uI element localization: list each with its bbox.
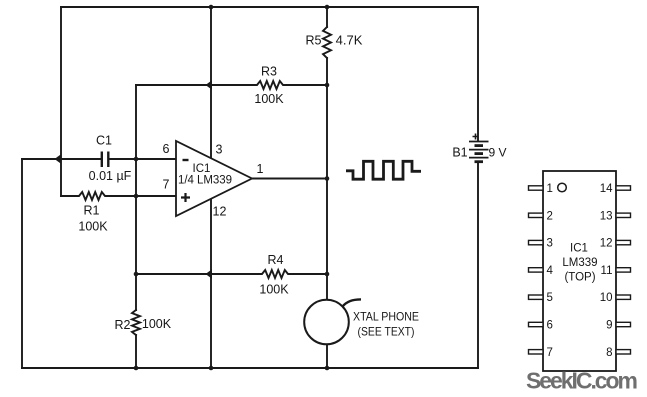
- op-amp U1 triangle: [176, 141, 252, 216]
- svg-text:2: 2: [547, 210, 553, 222]
- resistor R2: [132, 310, 140, 335]
- wire right vertical below R5: [326, 58, 328, 368]
- IC package right pins: [616, 186, 631, 354]
- svg-text:6: 6: [547, 320, 553, 332]
- svg-text:4: 4: [547, 265, 554, 277]
- capacitor C1 right plate: [107, 152, 109, 168]
- svg-text:LM339: LM339: [562, 257, 597, 269]
- wire battery vertical top: [477, 7, 479, 141]
- svg-text:R2: R2: [115, 318, 131, 332]
- wire left vertical from top rail down to R1: [60, 7, 62, 196]
- op-amp plus sign: [181, 193, 190, 202]
- svg-text:6: 6: [163, 142, 170, 156]
- IC package right pin numbers 14-8: [600, 183, 613, 359]
- node: arrow join C1 wire to left vertical: [55, 154, 62, 164]
- wire C1 branch left segment: [22, 158, 101, 160]
- svg-text:8: 8: [606, 347, 612, 359]
- svg-text:(SEE TEXT): (SEE TEXT): [358, 325, 415, 339]
- wire right feedback vertical with R5: [326, 7, 328, 27]
- node: junction bottom rail / power rail: [209, 366, 214, 371]
- IC package IC1 LM339 body: [543, 171, 616, 371]
- svg-text:10: 10: [600, 292, 613, 304]
- node: junction output / right vertical: [325, 176, 330, 181]
- svg-text:IC1: IC1: [193, 163, 211, 175]
- svg-text:1: 1: [257, 162, 264, 176]
- IC package left pins: [529, 186, 544, 354]
- wire inverting input pin 6: [136, 158, 176, 160]
- resistor R1: [61, 192, 136, 200]
- resistor R3: [136, 81, 327, 89]
- node: junction top rail / R5 branch: [325, 5, 330, 10]
- node: junction R4 left: [134, 272, 139, 277]
- svg-text:13: 13: [600, 210, 613, 222]
- svg-text:IC1: IC1: [570, 243, 588, 255]
- svg-text:11: 11: [601, 265, 613, 277]
- resistor R5: [323, 27, 331, 58]
- svg-text:1/4 LM339: 1/4 LM339: [178, 175, 232, 187]
- svg-text:9: 9: [606, 320, 612, 332]
- node: junction bottom rail / R2: [134, 366, 139, 371]
- node: junction R4 right: [325, 272, 330, 277]
- svg-text:7: 7: [547, 347, 553, 359]
- wire non-inverting input pin 7: [136, 195, 176, 197]
- wire mid-left vertical (R3 corner down through R2 to bottom): [135, 85, 137, 310]
- crystal earphone leader curve: [343, 299, 362, 306]
- battery plus sign: [473, 134, 479, 140]
- IC package pin 1 indicator circle: [558, 183, 567, 192]
- svg-text:7: 7: [163, 178, 170, 192]
- node: junction R3 right: [325, 83, 330, 88]
- svg-text:R4: R4: [268, 253, 284, 267]
- wire C1 branch right segment: [110, 158, 137, 160]
- resistor R4: [136, 270, 327, 278]
- wire op-amp output pin 1: [252, 178, 327, 180]
- wire power rail vertical (pins 3/12): [210, 7, 212, 368]
- svg-text:C1: C1: [96, 134, 112, 148]
- svg-text:3: 3: [547, 238, 553, 250]
- svg-text:R3: R3: [261, 65, 277, 79]
- svg-text:0.01 µF: 0.01 µF: [89, 169, 132, 183]
- svg-text:3: 3: [216, 143, 223, 157]
- battery B1 plates: [469, 142, 489, 162]
- svg-text:R1: R1: [84, 204, 100, 218]
- wire top rail: [61, 6, 478, 8]
- wire below R2: [135, 335, 137, 368]
- svg-text:14: 14: [600, 183, 613, 195]
- svg-text:R5: R5: [306, 34, 322, 48]
- node: junction bottom rail / earphone: [325, 366, 330, 371]
- svg-text:12: 12: [213, 205, 227, 219]
- svg-text:4.7K: 4.7K: [336, 33, 363, 48]
- svg-text:100K: 100K: [259, 283, 289, 297]
- svg-text:B1: B1: [452, 146, 467, 160]
- wire far-left vertical: [21, 159, 23, 368]
- capacitor C1 left plate: [101, 152, 103, 168]
- node: junction R1 right / pin7: [134, 194, 139, 199]
- wire bottom rail: [22, 367, 478, 369]
- op-amp minus sign: [183, 159, 189, 161]
- crystal earphone circle: [304, 300, 349, 345]
- svg-text:1: 1: [547, 183, 553, 195]
- node: junction top rail / power rail: [209, 5, 214, 10]
- svg-text:5: 5: [547, 292, 553, 304]
- node: arrow join R4 wire to power rail: [206, 269, 213, 279]
- svg-text:100K: 100K: [78, 220, 108, 234]
- svg-text:12: 12: [600, 238, 613, 250]
- node: junction C1 right / pin6: [134, 157, 139, 162]
- svg-text:(TOP): (TOP): [564, 272, 595, 284]
- square wave symbol: [346, 161, 421, 179]
- svg-text:XTAL PHONE: XTAL PHONE: [353, 310, 419, 324]
- svg-text:SeekIC.com: SeekIC.com: [526, 368, 638, 394]
- node: arrow join R3 wire to power rail: [206, 80, 213, 90]
- svg-text:9 V: 9 V: [488, 146, 506, 160]
- wire battery vertical bottom: [477, 163, 479, 369]
- IC package left pin numbers 1-7: [547, 183, 554, 359]
- svg-text:100K: 100K: [142, 317, 172, 331]
- svg-text:100K: 100K: [254, 92, 284, 106]
